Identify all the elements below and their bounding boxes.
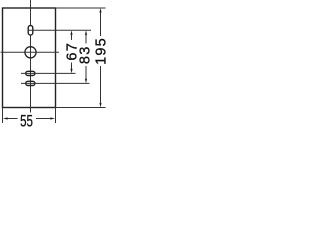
middle slot centerline xyxy=(21,72,76,74)
plate outline xyxy=(3,8,56,108)
dim 67 arrows xyxy=(70,30,72,73)
dim 83 line xyxy=(85,34,87,80)
lower slot hole xyxy=(26,81,35,85)
centerline vertical lower xyxy=(30,35,32,113)
dim 55 line xyxy=(8,118,51,120)
top extension line xyxy=(56,7,106,9)
middle slot hole xyxy=(26,71,35,75)
top slot centerline xyxy=(28,29,91,31)
circle centerline xyxy=(1,51,60,53)
svg-text:83: 83 xyxy=(77,46,93,65)
bottom left extension line xyxy=(2,108,4,124)
bottom extension line xyxy=(56,107,106,109)
centerline vertical upper xyxy=(30,0,32,26)
dim 83 arrows xyxy=(85,30,87,83)
bottom right extension line xyxy=(55,108,57,124)
svg-text:55: 55 xyxy=(20,113,33,132)
dim 195 line xyxy=(100,12,102,105)
dim 67 line xyxy=(71,34,73,70)
top slot hole xyxy=(28,26,33,36)
dim 195 arrows xyxy=(99,8,101,108)
lower slot centerline xyxy=(21,82,90,84)
circle hole xyxy=(25,47,36,58)
dim 55 arrows xyxy=(3,117,55,119)
svg-text:195: 195 xyxy=(94,37,110,65)
